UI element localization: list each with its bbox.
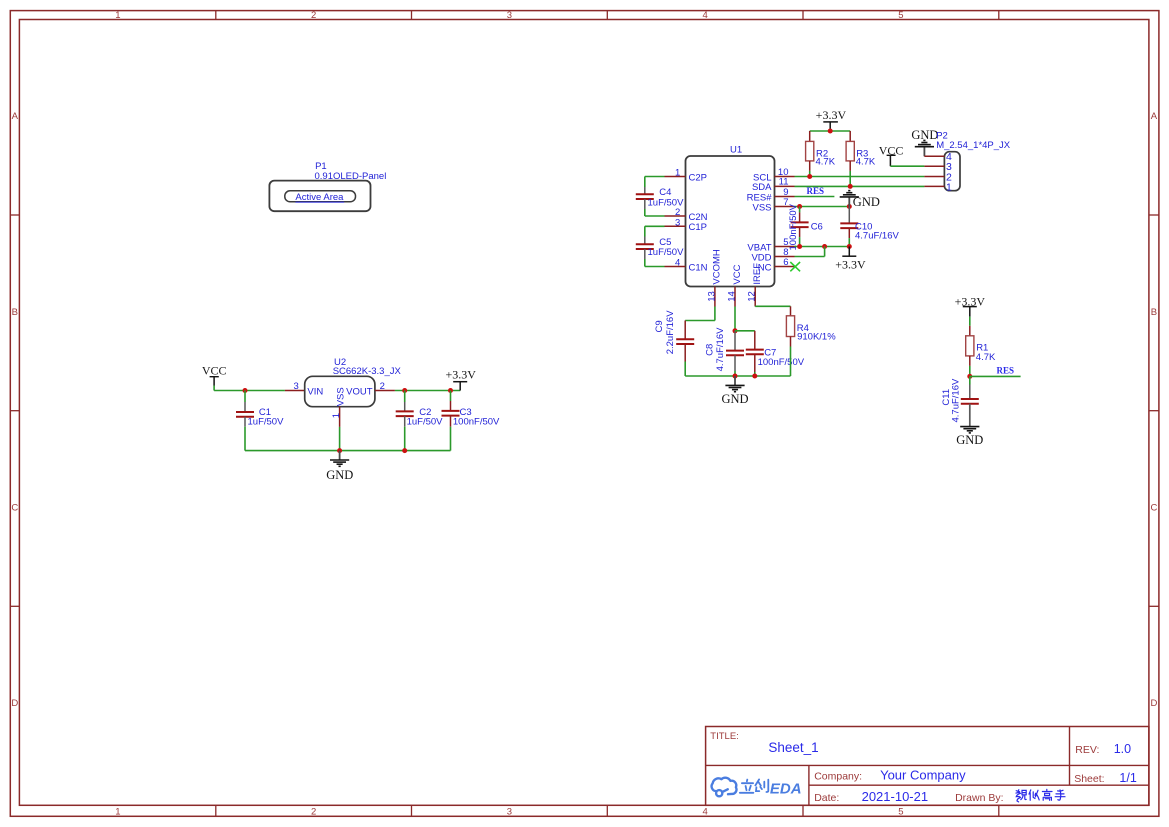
svg-text:D: D [1150, 698, 1157, 709]
node rail junction C8 [733, 374, 738, 379]
svg-text:1uF/50V: 1uF/50V [407, 417, 444, 428]
resistor R3 [849, 131, 851, 141]
U2 pin 2 [375, 390, 395, 392]
U1 pin 9 [775, 196, 795, 198]
svg-text:GND: GND [853, 195, 880, 209]
svg-text:4.7K: 4.7K [856, 156, 876, 167]
svg-text:C9: C9 [654, 320, 665, 332]
svg-text:5: 5 [898, 807, 903, 818]
svg-text:5: 5 [898, 10, 903, 21]
wire VCC to VIN [213, 386, 215, 391]
svg-text:Sheet_1: Sheet_1 [768, 740, 818, 755]
svg-text:VSS: VSS [752, 202, 771, 213]
svg-text:1: 1 [331, 413, 342, 418]
svg-text:4: 4 [702, 807, 707, 818]
svg-text:C: C [11, 503, 18, 514]
capacitor C6 [799, 207, 801, 213]
svg-text:C1N: C1N [689, 262, 708, 273]
ground GND (U2) [339, 451, 341, 460]
logo EasyEDA cloud [712, 778, 737, 797]
wire ground rail U2 [245, 450, 451, 452]
svg-text:13: 13 [706, 291, 717, 302]
svg-text:M_2.54_1*4P_JX: M_2.54_1*4P_JX [936, 140, 1011, 151]
U2 pin 3 [285, 390, 305, 392]
svg-text:REV:: REV: [1075, 744, 1099, 756]
svg-text:100nF/50V: 100nF/50V [788, 203, 799, 250]
node rail junction C7 [752, 374, 757, 379]
connector P1 0.91OLED-Panel body [269, 181, 370, 212]
capacitor C7 [754, 331, 756, 340]
svg-text:+3.3V: +3.3V [816, 108, 847, 122]
svg-text:C1P: C1P [689, 222, 707, 233]
svg-text:GND: GND [326, 468, 353, 482]
capacitor C8 [734, 331, 736, 351]
svg-text:C8: C8 [704, 344, 715, 356]
svg-text:+3.3V: +3.3V [445, 367, 476, 381]
svg-text:4.7uF/16V: 4.7uF/16V [950, 378, 961, 422]
op-amp U2 SC662K-3.3_JX body [305, 376, 375, 406]
svg-text:4.7K: 4.7K [816, 156, 836, 167]
svg-text:1: 1 [946, 181, 952, 193]
node VOUT junction at C2 [402, 388, 407, 393]
wire C5 to pin4 [645, 266, 665, 268]
capacitor C4 [644, 177, 646, 188]
node VCC junction C8 C7 [733, 328, 738, 333]
svg-text:+3.3V: +3.3V [835, 258, 866, 272]
svg-text:TITLE:: TITLE: [710, 731, 739, 742]
U1 pin 11 [775, 185, 795, 187]
capacitor C10 [848, 207, 850, 224]
title block dividers [706, 764, 1149, 766]
svg-text:4: 4 [702, 10, 707, 21]
svg-text:GND: GND [911, 128, 938, 142]
svg-text:1.0: 1.0 [1114, 742, 1131, 756]
wire VCC to P2 pin3 [890, 165, 924, 167]
resistor R4 [790, 306, 792, 316]
svg-text:IREF: IREF [752, 263, 763, 285]
node VBAT junction VDD [822, 244, 827, 249]
U1 pin 4 [665, 266, 686, 268]
P2 pin 1 [924, 185, 944, 187]
svg-text:2.2uF/16V: 2.2uF/16V [665, 310, 676, 354]
svg-text:1uF/50V: 1uF/50V [648, 197, 685, 208]
wire pin12 to R4 [754, 305, 756, 307]
ground GND (VSS) [848, 197, 850, 207]
svg-text:1: 1 [115, 10, 120, 21]
svg-text:VSS: VSS [336, 387, 347, 406]
svg-text:100nF/50V: 100nF/50V [453, 417, 500, 428]
svg-text:SC662K-3.3_JX: SC662K-3.3_JX [333, 366, 402, 377]
svg-text:A: A [12, 111, 19, 122]
svg-text:3: 3 [675, 217, 680, 228]
svg-text:1uF/50V: 1uF/50V [648, 247, 685, 258]
svg-text:Date:: Date: [814, 792, 839, 804]
svg-text:12: 12 [747, 291, 758, 302]
wire VSS [795, 206, 850, 208]
svg-text:D: D [11, 698, 18, 709]
wire RES# [795, 196, 835, 198]
title block outline [706, 727, 1149, 806]
node +3.3V junction [828, 129, 833, 134]
capacitor C11 [969, 376, 971, 384]
svg-text:C6: C6 [811, 222, 823, 233]
U1 pin 3 [665, 225, 686, 227]
wire R4 to rail [790, 347, 792, 377]
U1 pin 14 [734, 287, 736, 307]
wire VDD [795, 256, 825, 258]
frame row ticks [10, 214, 19, 216]
wire +3.3V to R2 R3 [829, 129, 831, 132]
svg-text:C: C [1150, 503, 1157, 514]
svg-text:Sheet:: Sheet: [1074, 773, 1104, 785]
svg-text:4.7uF/16V: 4.7uF/16V [715, 327, 726, 371]
U1 pin 6 [775, 266, 795, 268]
svg-text:Drawn By:: Drawn By: [955, 792, 1003, 804]
svg-text:1/1: 1/1 [1119, 771, 1136, 785]
node VSS junction GND [847, 204, 852, 209]
svg-text:RES: RES [997, 366, 1015, 376]
svg-text:4.7uF/16V: 4.7uF/16V [855, 231, 899, 242]
svg-text:2: 2 [311, 10, 316, 21]
wire to C7 [735, 330, 755, 332]
P2 pin 4 [924, 155, 944, 157]
svg-text:1: 1 [675, 168, 680, 179]
title block Drawn By value (CJK strokes) [1016, 789, 1065, 802]
ground GND (C11) [969, 404, 971, 427]
node RES junction [967, 374, 972, 379]
wire R2 to SCL [809, 171, 811, 177]
svg-text:VIN: VIN [307, 386, 323, 397]
svg-text:6: 6 [783, 257, 788, 268]
svg-text:0.91OLED-Panel: 0.91OLED-Panel [315, 171, 387, 182]
P1 active area box [285, 191, 356, 202]
wire pin1 to C4 [645, 176, 665, 178]
node VSS junction C6 [797, 204, 802, 209]
power +3.3V (VBAT) [848, 247, 850, 257]
no-connect flag pin 6 [790, 262, 800, 271]
svg-text:VOUT: VOUT [346, 386, 373, 397]
svg-text:GND: GND [956, 433, 983, 447]
svg-text:A: A [1151, 111, 1158, 122]
svg-text:2: 2 [380, 381, 385, 392]
wire pin13 to C9 [714, 307, 716, 321]
ground GND (U1) [734, 376, 736, 385]
svg-text:14: 14 [726, 291, 737, 302]
svg-text:VCC: VCC [202, 363, 227, 377]
resistor R2 [809, 131, 811, 141]
node rail junction VSS [337, 448, 342, 453]
P2 pin 2 [924, 176, 944, 178]
wire C4 to pin2 [645, 215, 665, 217]
node VOUT junction at C3 [448, 388, 453, 393]
frame column ticks [215, 11, 217, 20]
U1 pin 1 [665, 176, 686, 178]
svg-text:1: 1 [115, 807, 120, 818]
U1 pin 8 [775, 256, 795, 258]
wire R1 to node [969, 366, 971, 377]
svg-text:RES: RES [807, 186, 825, 196]
wire VBAT [795, 246, 850, 248]
U1 pin 2 [665, 215, 686, 217]
svg-text:2: 2 [311, 807, 316, 818]
capacitor C1 [244, 391, 246, 403]
wire ground rail U1 [685, 375, 790, 377]
connector P2 body [944, 152, 960, 191]
svg-text:910K/1%: 910K/1% [797, 331, 836, 342]
U2 pin 1 [339, 407, 341, 427]
svg-text:U1: U1 [730, 145, 742, 156]
svg-text:VCOMH: VCOMH [712, 249, 723, 285]
ground GND (P2 pin4) [923, 147, 925, 157]
op-amp U1 body [686, 156, 775, 287]
U1 pin 7 [775, 206, 795, 208]
svg-text:C2P: C2P [689, 172, 707, 183]
node VBAT junction C10 [847, 244, 852, 249]
wire RES stub [970, 375, 1021, 377]
svg-text:EDA: EDA [770, 781, 802, 798]
capacitor C3 [450, 391, 452, 402]
resistor R1 [969, 317, 971, 326]
svg-text:1uF/50V: 1uF/50V [248, 417, 285, 428]
svg-text:100nF/50V: 100nF/50V [758, 357, 805, 368]
capacitor C9 [684, 321, 686, 340]
U1 pin 5 [775, 246, 795, 248]
wire R3 to SDA [849, 171, 851, 187]
svg-text:VCC: VCC [732, 264, 743, 284]
U1 pin 10 [775, 176, 795, 178]
wire SCL [795, 176, 925, 178]
U1 pin 12 [754, 287, 756, 307]
capacitor C2 [404, 391, 406, 403]
svg-text:2021-10-21: 2021-10-21 [862, 789, 929, 804]
U1 pin 13 [714, 287, 716, 307]
svg-text:3: 3 [294, 381, 299, 392]
node VIN junction at C1 [243, 388, 248, 393]
svg-text:4: 4 [675, 258, 680, 269]
wire SDA [795, 185, 925, 187]
node rail junction C2 [402, 448, 407, 453]
node VBAT junction C6 [797, 244, 802, 249]
svg-text:4.7K: 4.7K [976, 352, 996, 363]
wire VSS to ground rail [339, 427, 341, 451]
svg-text:B: B [12, 307, 18, 318]
svg-text:Company:: Company: [814, 770, 862, 782]
node SCL junction R2 [807, 174, 812, 179]
svg-text:Your Company: Your Company [880, 767, 966, 782]
wire pin14 down [734, 307, 736, 331]
node SDA junction R3 [848, 184, 853, 189]
svg-text:GND: GND [721, 392, 748, 406]
logo LCEDA text (CJK strokes) [740, 779, 769, 792]
svg-text:3: 3 [507, 10, 512, 21]
wire VOUT to +3.3V [395, 390, 460, 392]
svg-text:B: B [1151, 307, 1157, 318]
svg-text:3: 3 [507, 807, 512, 818]
wire pin3 to C5 [645, 225, 665, 227]
capacitor C5 [644, 226, 646, 236]
svg-text:Active Area: Active Area [295, 192, 344, 203]
P2 pin 3 [924, 165, 944, 167]
